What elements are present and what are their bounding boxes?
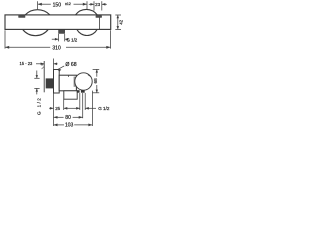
- svg-text:310: 310: [52, 45, 61, 51]
- svg-text:G 1/2: G 1/2: [37, 97, 42, 115]
- handle circle (side): [75, 73, 92, 90]
- hose nipple blobs under handle: [77, 90, 80, 93]
- svg-text:±12: ±12: [65, 2, 71, 6]
- body bar: [5, 15, 111, 30]
- dimension G 1/2 under nipple (front): [52, 34, 68, 42]
- outlet nipple (dark) under bar: [59, 30, 65, 34]
- label pill right on bar: [96, 16, 102, 18]
- left handle bottom arc (below bar): [23, 30, 49, 36]
- svg-text:23: 23: [95, 2, 101, 7]
- svg-text:68: 68: [93, 78, 98, 84]
- dimension 310 (below front view): [5, 30, 111, 48]
- svg-text:25: 25: [55, 106, 60, 111]
- dimension 23 (top right): [89, 1, 107, 10]
- vertical dimension 68 (right of circle): [93, 69, 100, 92]
- supply dimension G 1/2 (vertical, left): [34, 71, 39, 95]
- svg-text:G 1/2: G 1/2: [98, 106, 110, 111]
- dark strip between body and handle: [74, 77, 77, 87]
- supply union nut (dark): [46, 78, 54, 88]
- svg-text:80: 80: [65, 115, 71, 121]
- svg-text:G 1/2: G 1/2: [67, 38, 78, 43]
- dimension 150 +-12 (top): [38, 1, 87, 9]
- svg-text:Ø 68: Ø 68: [65, 62, 76, 68]
- dimension G 1/2 outlet (row 1 right): [70, 107, 97, 110]
- dimension 42 (right end, vertical, bar height): [115, 15, 121, 29]
- extension lines below side view: [54, 91, 93, 126]
- label pill left on bar: [18, 15, 25, 17]
- right handle dome arc (above bar): [75, 9, 97, 15]
- right handle bottom arc (below bar): [77, 30, 97, 36]
- escutcheon (side): [54, 70, 60, 94]
- seam line near right end of bar: [99, 15, 101, 29]
- left handle dome arc (above bar): [25, 10, 50, 15]
- outlet pipe below body: [64, 91, 77, 99]
- wall hatching: [42, 63, 44, 69]
- svg-text:42: 42: [119, 19, 124, 24]
- notch on body top: [68, 75, 70, 77]
- handle marker tick on circle: [88, 75, 91, 77]
- dimension 15-23 (wall to escutcheon): [36, 59, 58, 70]
- dimension 103 (row 3): [54, 124, 93, 127]
- svg-text:103: 103: [65, 123, 74, 129]
- body (side): [59, 75, 76, 91]
- dimension 80 (row 2): [54, 116, 83, 119]
- svg-text:15 - 23: 15 - 23: [20, 61, 33, 66]
- svg-text:150: 150: [53, 2, 62, 8]
- dimension 25 (row 1): [49, 107, 69, 110]
- wall line: [43, 61, 45, 92]
